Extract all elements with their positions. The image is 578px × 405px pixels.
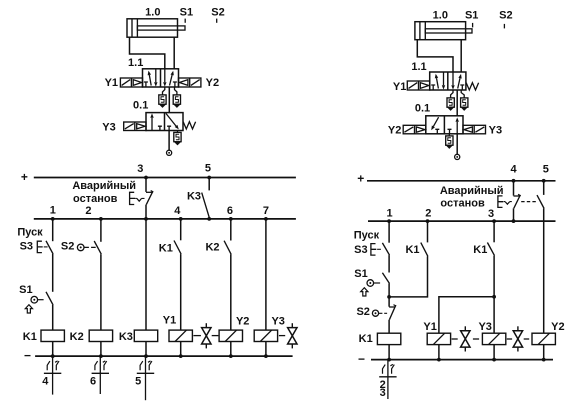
- link valve symbol 2 to Y2 (right): [524, 338, 530, 340]
- node bottom rail x=101: [99, 354, 103, 358]
- wire rail2 to contact K1 col2: [427, 221, 429, 242]
- emergency stop button (right, NC mushroom): [498, 194, 521, 208]
- svg-text:K1: K1: [359, 333, 373, 345]
- wire rail1 to emergency stop: [145, 178, 147, 192]
- svg-text:+: +: [21, 170, 28, 184]
- wire rail1 to contact K3: [208, 178, 210, 191]
- node rail2 x=181: [179, 217, 183, 221]
- svg-text:3: 3: [137, 163, 143, 175]
- svg-text:Пуск: Пуск: [17, 227, 43, 239]
- wire S3 to S1 (right): [388, 255, 390, 272]
- relay coil K1 (right): [377, 333, 400, 344]
- svg-text:останов: останов: [440, 198, 485, 210]
- svg-text:Y3: Y3: [271, 315, 284, 327]
- wire rail2 to coil Y3: [265, 219, 267, 330]
- emergency stop button SB1 (NC mushroom): [130, 191, 154, 205]
- branch wire col3 to coil Y1: [439, 297, 494, 333]
- wire rail2 to S3: [52, 219, 54, 241]
- muffler right valve 0.1: [446, 134, 453, 149]
- muffler on valve 0.1 port 3: [174, 131, 181, 146]
- link Y1 to valve symbol: [193, 335, 201, 337]
- solenoid coil Y3 (right): [482, 333, 505, 344]
- wire S2 to coil K2: [100, 254, 102, 330]
- node rail2 right x=389: [387, 219, 391, 223]
- svg-text:Y2: Y2: [236, 315, 249, 327]
- node rail2 x=53: [51, 217, 55, 221]
- svg-text:7: 7: [263, 205, 269, 217]
- wire air supply to right valve 0.1: [456, 134, 458, 155]
- svg-text:S1: S1: [465, 9, 478, 21]
- limit switch S2 (right, NC): [372, 305, 396, 320]
- wire contact K1 col3 to node: [493, 256, 495, 297]
- node rail2 right x=494: [492, 219, 496, 223]
- svg-text:1.1: 1.1: [411, 61, 426, 73]
- wire valve 0.1 to valve 1.1 supply: [168, 87, 170, 113]
- node rail1-col5: [207, 176, 211, 180]
- valve symbol after Y3: [291, 323, 293, 348]
- contact cross reference K2 (rung 6): [99, 356, 101, 394]
- cylinder 1.0 (right circuit): [415, 22, 472, 40]
- limit switch S1 (NO, actuated): [25, 292, 53, 313]
- svg-text:Y2: Y2: [206, 77, 219, 89]
- svg-text:S1: S1: [354, 268, 367, 280]
- relay coil K1: [41, 330, 64, 341]
- link valve symbol to Y2: [212, 335, 219, 337]
- push button S3 (right, NO start): [371, 243, 390, 255]
- emergency stop second contact (col 5): [537, 195, 544, 208]
- solenoid Y1 (right valve 1.1): [407, 81, 429, 90]
- valve symbol between Y1 and Y2: [205, 323, 207, 348]
- limit switch S1 (right, NO actuated): [361, 273, 390, 296]
- relay coil K3: [134, 330, 157, 341]
- valve symbol between Y3 and Y2 (right): [517, 326, 519, 351]
- svg-text:2: 2: [425, 207, 431, 219]
- svg-text:K2: K2: [70, 331, 84, 343]
- svg-text:Y2: Y2: [388, 125, 401, 137]
- wire air supply to valve 0.1 port 1: [168, 131, 170, 151]
- valve 1.1 left position arrows: [144, 69, 158, 87]
- muffler on valve 1.1 port 3: [173, 87, 180, 108]
- svg-text:Пуск: Пуск: [354, 230, 380, 242]
- node bottom rail x=266: [264, 354, 268, 358]
- solenoid coil Y2 (right): [532, 333, 555, 344]
- node rail2 right x=514: [512, 219, 516, 223]
- wire node col3 to coil Y3: [493, 297, 495, 333]
- svg-text:K2: K2: [205, 242, 219, 254]
- svg-text:5: 5: [543, 164, 549, 176]
- contact cross reference K3 (rung 5): [145, 356, 147, 400]
- contact K2 (NO, rung 6): [224, 241, 231, 255]
- svg-text:3: 3: [380, 387, 386, 399]
- solenoid Y2 (right valve 0.1): [403, 125, 426, 134]
- wire cylinder right port to valve 1.1 port 2: [173, 37, 175, 69]
- node bottom rail x=231: [229, 354, 233, 358]
- valve 1.1 body (5/2 double solenoid): [143, 69, 179, 87]
- link Y3 to valve symbol: [279, 335, 285, 337]
- node rail2 x=266: [264, 217, 268, 221]
- svg-text:−: −: [24, 349, 31, 363]
- muffler right valve 1.1 port 5: [447, 90, 454, 111]
- svg-text:1.0: 1.0: [145, 6, 160, 18]
- wire S1 to coil K1: [52, 305, 54, 330]
- svg-text:Аварийный: Аварийный: [440, 185, 504, 197]
- svg-text:4: 4: [42, 375, 49, 387]
- svg-text:−: −: [358, 352, 365, 366]
- node rail1-col4 (right): [512, 179, 516, 183]
- solenoid Y3 (right valve 0.1): [463, 125, 486, 134]
- node bottom rail right x=544: [542, 358, 546, 362]
- svg-text:Y1: Y1: [423, 321, 436, 333]
- svg-text:K1: K1: [159, 242, 173, 254]
- svg-text:S3: S3: [354, 244, 367, 256]
- svg-text:S1: S1: [19, 284, 32, 296]
- svg-text:3: 3: [488, 208, 494, 220]
- solenoid Y3 (valve 0.1): [124, 122, 146, 131]
- svg-text:S2: S2: [499, 9, 512, 21]
- svg-text:1.0: 1.0: [433, 9, 448, 21]
- node bottom rail x=146: [144, 354, 148, 358]
- cylinder 1.0 (left circuit): [127, 19, 185, 37]
- valve 0.1 left position arrow: [150, 113, 162, 130]
- solenoid coil Y1: [169, 330, 192, 341]
- mechanical link emergency stop contacts: [521, 201, 536, 203]
- valve symbol between Y1 and Y3 (right): [464, 326, 466, 351]
- wire cylinder left port to valve 1.1 (right): [417, 40, 453, 72]
- wire rail2 to coil K3: [145, 219, 147, 330]
- wire cylinder right port to valve 1.1 (right): [460, 40, 462, 72]
- branch wire col1 to contact K1 col2: [389, 256, 427, 297]
- air supply source: [167, 150, 172, 155]
- svg-text:0.1: 0.1: [415, 103, 430, 115]
- spring return (valve 0.1): [183, 122, 195, 129]
- svg-text:S2: S2: [211, 6, 224, 18]
- svg-text:K1: K1: [473, 244, 487, 256]
- node rail1-col3: [144, 176, 148, 180]
- node rail2 x=101: [99, 217, 103, 221]
- relay coil K2: [89, 330, 112, 341]
- contact cross reference K1 (rungs 2,3 right): [387, 360, 389, 399]
- wire rail2 to S2: [100, 219, 102, 242]
- svg-text:S1: S1: [180, 6, 193, 18]
- svg-text:5: 5: [135, 375, 141, 387]
- svg-text:1.1: 1.1: [128, 57, 143, 69]
- valve 0.1 right circuit right position arrow: [448, 117, 459, 133]
- node bottom rail right x=494: [492, 358, 496, 362]
- node branch col3 (right): [492, 295, 496, 299]
- wire rail2 to contact K2: [230, 219, 232, 241]
- link Y3 to valve symbol 2 (right): [507, 338, 512, 340]
- wire rail1 to emergency stop second contact: [543, 181, 545, 195]
- sensor switch S2 (NO): [77, 241, 101, 254]
- link valve symbol to Y3 (right): [473, 338, 479, 340]
- valve 1.1 right position arrows: [163, 69, 177, 87]
- svg-text:5: 5: [205, 163, 211, 175]
- contact cross reference K1 (rung 4): [52, 356, 54, 395]
- spring return (right valve 1.1): [466, 83, 478, 90]
- push button S3 (NO start): [37, 241, 53, 254]
- valve 1.1 body right circuit (5/2 single solenoid): [430, 72, 466, 90]
- svg-text:Y3: Y3: [489, 125, 502, 137]
- node rail2 x=146: [144, 217, 148, 221]
- solenoid Y2 (valve 1.1): [179, 78, 201, 87]
- positive rail (left ladder): [34, 177, 296, 179]
- wire emergency stop to rail2 (right): [513, 208, 515, 221]
- wire contact K2 to coil Y2: [230, 254, 232, 330]
- svg-text:останов: останов: [73, 193, 118, 205]
- solenoid coil Y2: [219, 330, 242, 341]
- node rail1-col5 (right): [542, 179, 546, 183]
- node branch col1 (right): [387, 295, 391, 299]
- wire second contact to coil Y2 (crosses rail2): [543, 209, 545, 334]
- valve 0.1 right circuit left position arrow: [431, 117, 439, 134]
- second rail (left ladder): [34, 218, 296, 220]
- svg-text:Y3: Y3: [102, 122, 115, 134]
- wire contact K1 to coil Y1: [180, 254, 182, 330]
- link Y1 to valve symbol (right): [452, 338, 458, 340]
- wire rail1 to emergency stop (right): [513, 181, 515, 196]
- wires coils to minus rail (right): [389, 345, 544, 360]
- valve 1.1 right circuit left position arrows: [431, 72, 445, 90]
- svg-text:+: +: [357, 172, 364, 186]
- wire rail2 to S3 (right): [388, 221, 390, 243]
- node bottom rail right x=439: [437, 358, 441, 362]
- contact K1 (NO, col3): [487, 243, 494, 256]
- svg-text:2: 2: [85, 205, 91, 217]
- svg-text:Y3: Y3: [478, 321, 491, 333]
- svg-text:Y1: Y1: [105, 77, 118, 89]
- node bottom rail right x=389: [387, 358, 391, 362]
- contact K3 (NO, rung 5): [202, 193, 210, 219]
- svg-text:4: 4: [511, 164, 518, 176]
- contact K1 (NO, col2 latching): [421, 243, 428, 257]
- svg-text:1: 1: [50, 204, 56, 216]
- solenoid coil Y1 (right): [427, 333, 450, 344]
- svg-text:6: 6: [227, 205, 233, 217]
- wires coils to minus rail: [53, 342, 266, 357]
- wire S3 to S1: [52, 254, 54, 292]
- muffler right valve 1.1 port 3: [461, 90, 468, 111]
- svg-text:6: 6: [90, 375, 96, 387]
- svg-text:K3: K3: [119, 331, 133, 343]
- wire rail2 to contact K1: [180, 219, 182, 240]
- wire S2 to coil K1 (right): [388, 320, 390, 334]
- muffler on valve 1.1 port 5: [159, 87, 166, 108]
- svg-text:S2: S2: [356, 306, 369, 318]
- valve 0.1 body right circuit (3/2 double solenoid): [426, 116, 463, 134]
- valve 0.1 body (3/2 single solenoid): [146, 113, 183, 131]
- node bottom rail x=53: [51, 354, 55, 358]
- svg-text:Аварийный: Аварийный: [72, 180, 136, 192]
- node rail2 x=231: [229, 217, 233, 221]
- second rail (right ladder): [368, 220, 556, 222]
- contact K1 (NO, rung 4): [174, 241, 181, 255]
- wire S1 to branch node (right): [388, 284, 390, 297]
- svg-text:Y1: Y1: [163, 315, 176, 327]
- svg-text:K3: K3: [187, 191, 201, 203]
- svg-text:4: 4: [174, 205, 181, 217]
- node rail2 x=209: [207, 217, 211, 221]
- negative rail (right ladder): [371, 359, 553, 361]
- negative rail (left ladder): [35, 355, 293, 357]
- svg-text:S2: S2: [61, 241, 74, 253]
- svg-text:S3: S3: [20, 241, 33, 253]
- positive rail (right ladder): [367, 180, 556, 182]
- valve 0.1 right position arrow: [166, 113, 179, 130]
- wire cylinder left port to valve 1.1 port 4: [130, 37, 165, 69]
- wire node to S2 (right): [388, 297, 390, 307]
- node bottom rail x=181: [179, 354, 183, 358]
- wire rail2 to contact K1 col3: [493, 221, 495, 242]
- svg-text:1: 1: [387, 207, 393, 219]
- node rail2 right x=428: [426, 219, 430, 223]
- solenoid Y1 (valve 1.1): [120, 78, 142, 87]
- air supply source (right): [455, 154, 460, 159]
- wire emergency stop to rail2: [145, 205, 147, 219]
- svg-text:0.1: 0.1: [133, 99, 148, 111]
- valve 1.1 right circuit right position arrows: [451, 72, 464, 90]
- svg-text:Y1: Y1: [393, 81, 406, 93]
- svg-text:Y2: Y2: [551, 321, 564, 333]
- wire valve 0.1 to valve 1.1 supply (right): [456, 90, 458, 116]
- svg-text:K1: K1: [405, 244, 419, 256]
- solenoid coil Y3: [254, 330, 277, 341]
- svg-text:K1: K1: [23, 331, 37, 343]
